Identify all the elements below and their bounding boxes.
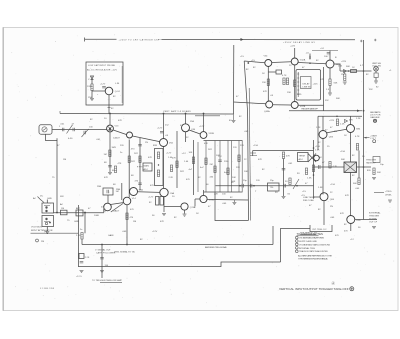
svg-text:47K: 47K [263,91,267,93]
svg-text:47K: 47K [148,157,152,159]
transistor Q74A [181,203,188,210]
svg-text:+350V DELAY LINE HV: +350V DELAY LINE HV [283,41,316,44]
resistor L6 [238,155,240,162]
arrowhead on trigger line [357,110,360,112]
node junction arrow on bus [241,38,244,41]
resistor R13 1M [109,150,111,157]
transistor Q134 follower [182,124,190,132]
term adj box [298,153,309,162]
trimmer arrow across caps [67,125,73,134]
wire V48 top stub [329,51,331,61]
svg-text:EARLIER: EARLIER [371,116,380,119]
svg-text:TERM: TERM [299,156,305,158]
wire Q134 to V33B [189,130,200,134]
wire delay chain [216,185,314,187]
trimmer arrow C13 [82,129,89,137]
wire main input column [109,114,111,126]
svg-text:AC: AC [60,203,63,206]
svg-text:10K: 10K [232,177,236,179]
wire V34 cathode chain [267,67,269,102]
svg-text:V42A: V42A [300,59,306,62]
svg-text:AMPLIFIED TRIG. SIGNAL: AMPLIFIED TRIG. SIGNAL [205,246,228,249]
wire second right vertical bus [249,88,250,221]
wire trigger takeoff line [289,110,362,112]
svg-text:+150: +150 [253,145,259,147]
comp box right edge [373,157,380,163]
term bracket [310,225,332,232]
wire C42 stub [309,54,311,56]
svg-text:47K: 47K [172,158,176,160]
svg-text:INTERNAL TRIG: INTERNAL TRIG [299,247,315,250]
title plus [351,288,353,290]
delay line transformer dark box [344,162,357,173]
driver triangle b [308,154,316,163]
wire Q135 emitter [163,197,165,212]
wire leader under label [100,281,122,283]
wire V13A cathode drop [128,140,130,198]
svg-text:220K: 220K [87,86,93,88]
wire mid column 313 [313,140,315,199]
wire V13A toward amp [133,136,160,142]
svg-text:47K: 47K [204,143,208,145]
resistor R49 horizontal [351,70,357,73]
wire ext sync stub [364,137,370,139]
ground drop a [343,82,347,84]
wire V43A to V47B [273,104,292,106]
note 3 bullet [296,243,299,246]
connector symbol [42,127,47,132]
wire H6 [314,166,346,168]
variable capacitor C13 [84,131,85,135]
ground output [374,81,378,83]
ground below switch [45,232,49,234]
delay line box [296,70,321,101]
wire V42A to output tube [298,63,326,64]
grid stopper box [276,70,282,74]
resistor mid313 [312,165,314,172]
resistor R35 [139,156,141,163]
wire Q84 down [323,201,325,225]
resistor R48 [329,79,331,86]
wire output line [340,70,372,72]
wire V42 cathode chain [294,65,296,101]
resistor R36 right of chain [170,165,172,172]
node top313 [313,147,315,149]
transistor Q63A [130,188,138,196]
chain cap c [284,184,285,188]
capacitor left col [282,169,286,170]
svg-text:LEVEL: LEVEL [385,195,393,197]
connector term box [374,73,378,78]
transistor Q85 [347,216,355,224]
svg-text:ADJ: ADJ [299,158,303,161]
note 4 bullet [296,247,299,250]
svg-text:5-25: 5-25 [297,94,302,96]
knob symbol [36,239,39,242]
note 2 bullet [296,240,299,243]
capacitor C12 [73,128,74,132]
svg-text:+12V: +12V [166,153,172,155]
resistor pair box a [156,197,159,206]
wire Q83 to Q84u [327,129,347,133]
svg-text:10K: 10K [216,155,220,157]
tube V13A cathode [127,132,133,138]
transistor Q83 [319,131,327,139]
wire grid to cathode follower [113,130,126,135]
wire V105 to bus [207,199,248,202]
svg-text:1M: 1M [63,159,66,161]
wire V47B out [298,104,323,106]
svg-text:+12V: +12V [199,126,205,128]
wire Q84u top [350,116,352,124]
svg-text:4.7K: 4.7K [282,75,287,77]
wire left tall drop from connector [56,141,58,213]
svg-text:47K: 47K [345,195,349,197]
wire Q63A to Q135 [138,191,160,194]
svg-text:VOLTAGES AND WAVEFORMS: VOLTAGES AND WAVEFORMS [299,237,325,240]
node after transformer [363,166,365,168]
input connector J1 [39,125,52,134]
svg-text:TO CIRCUIT NOTES: TO CIRCUIT NOTES [297,232,323,236]
node chain dot a [239,185,241,187]
resistor cath [128,156,130,163]
wire top supply bus +225V [85,38,117,40]
ladder top rail [204,140,243,142]
arrowhead ext sync [364,137,367,139]
svg-text:47K: 47K [118,163,122,165]
svg-text:100K: 100K [94,215,100,217]
svg-text:AC: AC [33,197,36,200]
svg-text:56K: 56K [336,98,340,100]
svg-text:1.2K: 1.2K [316,127,321,129]
svg-text:2.2K: 2.2K [85,257,90,259]
svg-text:F 1 FEB. 1958: F 1 FEB. 1958 [40,288,55,290]
svg-text:56K: 56K [341,159,345,161]
node junction at 85 [84,212,86,214]
ground +trig [388,200,392,202]
svg-text:63A: 63A [139,189,143,192]
wire Q85 bottom [350,224,352,232]
note 1 bullet [296,236,299,239]
capacitor C33 [138,145,142,146]
wire V48 cathode [329,68,331,79]
node T [336,116,338,118]
wire V13B plate to V14 [111,203,124,205]
svg-text:ADJ: ADJ [144,168,148,171]
wire Q85 right [355,219,377,221]
transistor Q135 lower cascode [160,188,168,196]
svg-text:+12V: +12V [157,128,163,130]
capacitor C11 [63,128,64,132]
transistor Q84u [347,125,355,133]
svg-text:VOLTAGE AND GAIN CONDITIONS: VOLTAGE AND GAIN CONDITIONS [299,243,331,246]
chain inductor box [268,183,280,191]
wire vertical bus from top line [233,45,235,114]
ground below ladder [233,200,235,202]
svg-text:AC-DC REGULATOR +12V: AC-DC REGULATOR +12V [87,69,118,72]
ground on vertical bus [233,114,235,120]
svg-text:4.7K: 4.7K [333,166,338,168]
dashed leader to gain box [137,166,143,168]
wire V33B up [203,114,205,132]
ground G18 [100,271,104,273]
wire resistor to ground [91,91,93,99]
svg-text:2.2K: 2.2K [340,124,345,126]
capacitor C15 on grid line [104,209,105,213]
resistor R34 in box [157,170,159,177]
connector squiggle [43,128,46,130]
svg-text:INPUT ATTENUATOR: INPUT ATTENUATOR [31,229,53,232]
ground G17 [80,271,84,273]
svg-text:1N: 1N [341,74,344,76]
wire extra interstage vertical [197,142,199,192]
svg-text:GAIN: GAIN [144,165,150,168]
svg-text:2.2K: 2.2K [356,118,361,120]
svg-text:TRIGGER: TRIGGER [369,216,379,218]
svg-text:CRT: CRT [370,138,377,140]
wire input column lower [109,132,111,172]
wire signal-out drop [101,245,103,279]
box right inner edge [121,66,123,103]
wire Q134 down [185,132,187,142]
resistor R33 in box [157,152,159,159]
switch inner tick [44,206,50,222]
capacitor C16 [100,258,104,259]
wire bus dash [158,39,162,41]
gain network box [155,149,164,186]
wire mid column 177 [176,131,178,188]
notes title underline [297,235,319,237]
switch contact a [45,206,47,208]
socket center dot [109,128,111,130]
circled note ext sync [373,140,376,143]
wire input to grid [52,129,107,131]
svg-text:+225V TO CRT CATHODE CKT: +225V TO CRT CATHODE CKT [119,39,161,42]
svg-text:.33A: .33A [170,192,175,195]
svg-text:2.2K: 2.2K [76,235,81,237]
wire Q24 emitter down [108,95,110,114]
ladder rung 7 [241,141,243,193]
wire stub to V13B grid [107,195,109,203]
svg-text:GAIN: GAIN [108,234,114,237]
node chain [296,185,298,187]
svg-text:1M: 1M [61,208,64,210]
page left edge darker [2,28,4,311]
svg-text:47K: 47K [258,159,262,161]
svg-text:2M: 2M [41,241,44,243]
svg-text:2.2K: 2.2K [315,150,320,152]
driver circle [314,155,320,161]
capacitor C14 [108,166,112,167]
box left edge [317,116,319,150]
wire Q83 down long [322,139,324,195]
ladder rung 4 [227,141,229,193]
svg-text:+150: +150 [330,184,336,186]
svg-text:TRACE ROTATION ADJUSTED: TRACE ROTATION ADJUSTED [299,250,328,253]
wire connector drop [375,71,377,73]
wire Q84u down long [350,133,352,216]
svg-text:56K: 56K [346,66,350,68]
tube V13B triode [104,203,112,211]
capacitor C133 [160,132,164,133]
resistor R10 75 ohm [61,210,68,215]
attenuator block R11 [76,210,83,216]
chain resistor [289,178,291,185]
svg-text:22K: 22K [236,167,240,169]
scan noise speckle [9,32,395,307]
tick on emitter wire [108,107,111,109]
wire V42A anode up [294,48,296,58]
wire branch down to volts/div [84,213,86,233]
svg-text:+225: +225 [341,61,347,63]
svg-text:1.5K: 1.5K [307,178,312,180]
svg-text:+225: +225 [313,84,319,86]
wire zener to resistor [91,80,93,85]
svg-text:93Ω COAX: 93Ω COAX [303,199,314,202]
ladder rung 5 [231,141,233,193]
svg-text:1M: 1M [104,154,107,156]
svg-text:+150: +150 [315,146,321,148]
svg-text:GND: GND [74,221,79,223]
wire cascode chain [163,147,165,189]
node mid313 [313,174,315,176]
wire connector stub [375,78,377,81]
resistor L2 [214,166,216,173]
wire col 359 [358,151,360,179]
svg-text:56K: 56K [353,183,357,185]
svg-text:Q43A: Q43A [264,110,270,113]
wire right drop to ground bus [281,229,311,263]
svg-text:LOW CAP INPUT PROBE: LOW CAP INPUT PROBE [88,64,116,67]
wire below switch [46,227,48,232]
svg-text:V33B: V33B [209,133,215,135]
svg-text:47K: 47K [104,177,108,179]
winding ticks [297,74,299,94]
svg-text:+12.5: +12.5 [76,276,82,278]
switch contact c [45,218,47,220]
svg-text:TRIGGER: TRIGGER [366,160,376,162]
circled plus top right [373,119,376,122]
parallel resistor b [286,78,288,85]
resistor right end [373,168,375,175]
svg-text:10K: 10K [189,152,193,154]
wire Q134 up [185,114,187,124]
svg-text:+150: +150 [340,151,346,153]
wire Q133 collector up [163,114,165,139]
wire column 193 [193,140,195,195]
svg-text:+225: +225 [290,46,296,48]
ground in regulator box [90,99,94,101]
rail end tick [59,111,61,114]
resistor pair box b [160,197,163,206]
wire section rail [60,113,234,116]
second rail segment [195,115,220,117]
capacitor C48 [327,53,331,54]
wire base feed [92,90,105,92]
wire V34 to V42A [272,61,291,64]
resistor R17 column [79,254,84,259]
resistor drop a [344,71,346,74]
svg-text:10K: 10K [244,171,248,173]
wire feedback drop [77,205,79,267]
wire connector shield stub [46,134,58,140]
wire rail 150 [253,150,314,152]
inner term box [301,77,312,89]
capacitor C42 [309,56,310,60]
ground V48 [328,93,332,95]
extra value labels sprinkle [44,56,392,241]
tube V43A [266,101,273,108]
ground Q135 [162,214,166,216]
wire R48 to gnd [329,86,331,93]
capacitor C17 [80,262,84,263]
svg-text:Q-24: Q-24 [115,91,121,93]
wire left col [283,159,285,197]
box top edge [318,115,362,117]
svg-text:SUPPLY AND GND: SUPPLY AND GND [299,240,317,243]
resistor left of node [305,168,307,175]
wire after transformer [357,166,372,168]
svg-text:1M: 1M [133,221,136,223]
svg-text:SIGNAL: SIGNAL [369,218,378,221]
tube V105 [200,195,207,202]
wire V105 link [195,198,200,200]
svg-text:V47B: V47B [300,106,306,108]
cap in coupling box [107,190,108,194]
node tick left end of bus [84,38,86,42]
transformer X a [344,162,357,173]
diode DT1 [345,120,348,123]
node dot in box [158,164,159,165]
wire amplified trigger bus [82,244,273,246]
wire Q83 top [322,116,324,130]
svg-text:CATH. FOLLOWER: CATH. FOLLOWER [96,252,116,255]
svg-text:(O): (O) [44,231,47,233]
svg-text:2N: 2N [330,206,333,208]
left col resistor [282,152,284,159]
capacitor C24 [102,87,106,88]
capacitor C34 [138,183,142,184]
switch contact b [45,210,47,212]
wire drop to trigger line [323,67,325,111]
transistor Q24 [105,87,113,95]
node j2 [363,70,365,72]
svg-text:VERTICAL INPUT/OUTPUT TRIGGER: VERTICAL INPUT/OUTPUT TRIGGER TAKE-OFF [279,287,349,291]
ladder rung 1 [205,141,207,193]
ground left col [282,197,286,199]
resistor R42 [267,79,269,86]
svg-text:VOLTS/DIV: VOLTS/DIV [31,227,43,229]
svg-text:TAKEOFF: TAKEOFF [366,162,377,165]
svg-text:+12V: +12V [148,197,154,199]
switch contact d [45,222,47,224]
connector ring outer [374,66,379,71]
svg-text:2M: 2M [210,164,213,166]
wire into Q74A [164,206,181,208]
switch box SW10 upper [42,203,54,213]
resistor R15 [126,213,128,220]
tube V48 output [326,60,334,68]
wire above switch [46,200,48,204]
resistor right col [356,144,358,151]
underline [300,234,316,236]
svg-text:1M: 1M [116,191,119,193]
tube V47B [291,102,298,109]
output connector block [338,63,382,89]
resistor R16 at top of takeoff [81,233,83,240]
chain cap b [251,184,252,188]
ground Q74A [183,214,187,216]
